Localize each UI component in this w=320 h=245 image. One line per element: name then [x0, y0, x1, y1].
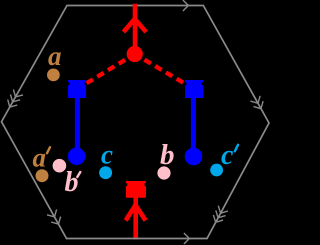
svg-text:c: c	[101, 139, 113, 169]
node S1: blue square left	[68, 80, 86, 98]
chevron: lower-right edge triple arrow	[213, 206, 228, 223]
svg-text:b: b	[160, 139, 175, 171]
prime of b'	[77, 172, 80, 177]
arrowhead: bottom red up-arrow	[126, 205, 146, 221]
chevron: upper-right edge double arrow	[251, 96, 264, 109]
node b: pink dot	[157, 166, 170, 179]
svg-text:b: b	[65, 167, 79, 198]
svg-text:a: a	[48, 41, 62, 71]
node S3: red square bottom	[126, 181, 146, 198]
node B1: blue circle left	[68, 148, 86, 166]
hexagon fundamental domain	[2, 6, 270, 239]
chevron: bottom edge single arrow	[184, 233, 190, 244]
wire: blue stem left	[75, 97, 80, 156]
wire: blue stem right	[191, 97, 196, 156]
wire: red dashed edge from node R0 to square S1	[77, 54, 135, 89]
chevron: lower-left edge double arrow	[47, 209, 61, 224]
node R0: red circle vertex	[127, 46, 143, 62]
chevron: top edge single arrow	[183, 0, 189, 11]
arrowhead: top red up-arrow	[124, 19, 147, 32]
node c': cyan dot	[210, 164, 223, 177]
node S2: blue square right	[185, 80, 203, 98]
node b': pink dot	[53, 159, 67, 173]
node a': brown dot	[36, 169, 49, 182]
node B2: blue circle right	[185, 148, 203, 166]
wire: bottom red shaft	[133, 197, 138, 240]
wire: red dashed edge from node R0 to square S2	[135, 54, 194, 89]
wire: top red shaft crossing top edge	[133, 4, 138, 54]
prime of c'	[235, 145, 238, 152]
chevron: upper-left edge triple arrow	[8, 89, 23, 107]
node a: brown dot	[47, 69, 60, 82]
svg-text:c: c	[221, 140, 234, 171]
svg-text:a: a	[33, 143, 47, 173]
node c: cyan dot	[99, 166, 112, 179]
prime of a'	[47, 147, 50, 153]
